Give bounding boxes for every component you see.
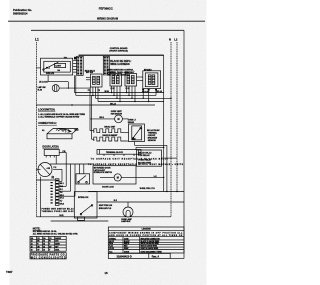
part number strip xyxy=(108,253,184,258)
table footer rows xyxy=(30,253,66,260)
svg-text:LAMP-BLK: LAMP-BLK xyxy=(121,220,131,223)
svg-text:N-32: N-32 xyxy=(132,139,136,141)
label BK-14 xyxy=(157,90,162,93)
svg-text:POWER UNIT SWITCH BK-14: POWER UNIT SWITCH BK-14 xyxy=(42,207,75,210)
lamp DS1 oven lamp xyxy=(121,202,133,223)
svg-text:TO SURFACE UNIT RECEPTACLE BLO: TO SURFACE UNIT RECEPTACLE BLOCKS BK-12 xyxy=(91,158,169,161)
svg-text:BRN LMP-PLS: BRN LMP-PLS xyxy=(99,208,112,210)
svg-text:16: 16 xyxy=(43,249,45,251)
svg-text:QUICK DISCONNECT TERM: QUICK DISCONNECT TERM xyxy=(141,251,163,253)
svg-text:V-7: V-7 xyxy=(60,201,63,203)
door switch S4 xyxy=(74,192,97,218)
svg-text:BK-1: BK-1 xyxy=(46,67,50,69)
svg-text:L1: L1 xyxy=(35,38,39,42)
svg-text:18 BL: 18 BL xyxy=(55,249,59,251)
oven light switch S1 xyxy=(41,58,73,75)
wire SW1 drops xyxy=(90,87,98,102)
wire into connector xyxy=(36,179,55,181)
svg-text:N-32: N-32 xyxy=(59,215,63,217)
svg-text:5995362014: 5995362014 xyxy=(13,12,28,16)
svg-text:TERMINAL BLOCK: TERMINAL BLOCK xyxy=(106,151,124,154)
svg-text:GY-18: GY-18 xyxy=(109,248,114,250)
header rule xyxy=(8,20,205,22)
control board edge xyxy=(79,54,164,56)
surface switch SW1 xyxy=(86,72,102,92)
footer code T387 xyxy=(6,270,13,274)
SW4 terminals xyxy=(142,89,157,94)
svg-text:SW-BK: SW-BK xyxy=(128,122,135,124)
svg-text:Rev. A: Rev. A xyxy=(152,255,160,258)
wire N run mid xyxy=(88,191,184,192)
oven door switch box xyxy=(129,124,145,142)
svg-text:T387: T387 xyxy=(6,270,13,274)
wire latch drop xyxy=(55,155,57,164)
svg-text:COMPONENT WIRING SHOWN IN OFF: COMPONENT WIRING SHOWN IN OFF POSITION A… xyxy=(109,231,183,234)
svg-text:2. ALL TERMINALS COPPER UNLESS: 2. ALL TERMINALS COPPER UNLESS NOTED xyxy=(38,116,80,119)
wire SW3 drops xyxy=(127,86,136,102)
svg-text:INTERLOCK SWITCH: INTERLOCK SWITCH xyxy=(94,172,113,174)
wire loop B xyxy=(135,142,167,192)
surface switch SW2 xyxy=(110,72,122,90)
wire broil links xyxy=(90,131,129,133)
svg-text:LOCKSWITCH:: LOCKSWITCH: xyxy=(38,109,55,112)
wire loop A xyxy=(136,147,164,150)
oven light switch S2 label xyxy=(128,120,137,124)
bake element R2 xyxy=(94,134,127,141)
svg-text:BK-1: BK-1 xyxy=(60,183,64,185)
oven relay board K1 xyxy=(137,150,162,166)
label relay output xyxy=(140,188,156,190)
control board annotation xyxy=(107,60,135,76)
heading door latch xyxy=(43,146,60,149)
svg-text:JB LOCK: JB LOCK xyxy=(39,81,48,83)
wire drop to bake element xyxy=(91,95,93,139)
wire relay to L2 xyxy=(162,157,178,158)
wire N run lower xyxy=(97,200,184,202)
svg-text:HEAT PRB LNK: HEAT PRB LNK xyxy=(99,204,113,207)
svg-text:12: 12 xyxy=(31,244,33,246)
wire connector runs xyxy=(59,181,75,196)
svg-text:4 W: 4 W xyxy=(47,167,51,170)
motor M1 oven vent xyxy=(115,115,123,123)
svg-text:10: 10 xyxy=(31,249,33,251)
bus wire 5 L1 run xyxy=(36,104,155,106)
svg-text:(FRONT SURFACE): (FRONT SURFACE) xyxy=(109,50,128,53)
wire lamp feed xyxy=(48,75,90,89)
node N xyxy=(169,38,171,217)
label between connectors xyxy=(85,70,96,73)
bus wire 1 xyxy=(75,92,164,93)
svg-text:M: M xyxy=(117,177,119,180)
wire board right drop xyxy=(163,55,165,191)
svg-text:12: 12 xyxy=(31,241,33,243)
svg-text:BK-14: BK-14 xyxy=(157,90,162,93)
svg-text:CONNECTOR A:: CONNECTOR A: xyxy=(38,122,57,125)
svg-text:WIRE HARNESS: WIRE HARNESS xyxy=(110,63,130,66)
latch module box xyxy=(93,166,136,184)
svg-text:W-30: W-30 xyxy=(105,91,109,93)
svg-text:WCI CONSOLIDATED: WCI CONSOLIDATED xyxy=(31,257,66,260)
label oven vent xyxy=(111,111,123,115)
lamp DS2 oven light bulb xyxy=(52,85,59,92)
wire SW2 drops xyxy=(112,86,121,102)
terminal strip TB1 xyxy=(97,150,141,157)
label TDL xyxy=(64,57,69,59)
bus wire 3 xyxy=(96,98,172,99)
wire vertical drops mid-left xyxy=(59,152,84,196)
svg-text:INF SW: INF SW xyxy=(86,72,93,74)
wire bottom N bus xyxy=(36,215,171,217)
label R xyxy=(52,176,55,180)
svg-text:GY-6: GY-6 xyxy=(60,198,64,200)
svg-text:OVEN LPS: OVEN LPS xyxy=(46,73,54,75)
svg-text:SYMBOL: SYMBOL xyxy=(109,238,116,240)
svg-text:10: 10 xyxy=(31,246,33,248)
legend heading left xyxy=(38,109,55,112)
bus wire 2 xyxy=(76,95,156,96)
svg-text:QUICK: QUICK xyxy=(124,251,130,253)
wire bottom stub xyxy=(51,220,109,222)
thermal breaker text xyxy=(147,129,160,142)
svg-text:316048413-D: 316048413-D xyxy=(117,255,132,258)
svg-text:16: 16 xyxy=(104,271,108,275)
wire SW4 drops xyxy=(143,91,156,102)
title WIRING DIAGRAM xyxy=(97,17,118,21)
control board label xyxy=(109,47,128,52)
relay sketch K2 xyxy=(44,149,66,157)
node L2 xyxy=(174,38,178,192)
note heading bottom xyxy=(33,227,41,230)
node L1 xyxy=(35,38,39,217)
wire drops from connector xyxy=(75,75,76,95)
label lamp code xyxy=(38,87,46,92)
connector P1 xyxy=(77,56,84,75)
wire drop to broil element xyxy=(89,93,91,131)
svg-text:OR-8: OR-8 xyxy=(60,204,64,206)
label JB block xyxy=(39,81,48,83)
surface switch SW3 xyxy=(125,72,137,90)
svg-text:BK-12: BK-12 xyxy=(109,241,114,243)
wire bake links xyxy=(92,139,129,141)
note line 2 xyxy=(38,116,80,119)
connector J1 strip xyxy=(51,179,64,206)
svg-text:DOOR LOCK: DOOR LOCK xyxy=(102,186,114,188)
caption surface units 2 xyxy=(88,163,184,166)
svg-text:DOOR LATCH:: DOOR LATCH: xyxy=(43,146,60,149)
wire gauge table xyxy=(30,236,66,251)
note body 1 xyxy=(33,230,57,233)
switch S3 xyxy=(76,174,90,184)
svg-text:BROIL UNIT: BROIL UNIT xyxy=(104,127,116,129)
label BK-8 xyxy=(100,117,104,119)
svg-text:WHITE: WHITE xyxy=(124,243,129,245)
caption surface units 1 xyxy=(91,158,169,161)
svg-text:BK-2: BK-2 xyxy=(75,130,79,132)
svg-text:A1: A1 xyxy=(42,129,44,132)
plug terminal xyxy=(74,57,76,60)
svg-text:CODE: CODE xyxy=(124,238,129,240)
bus wire 4 xyxy=(98,101,164,102)
svg-text:1. ALL LEADS ARE BLACK 14 GA.: 1. ALL LEADS ARE BLACK 14 GA. WIRE AND T… xyxy=(38,113,85,116)
svg-text:INTERLOCK: INTERLOCK xyxy=(78,197,89,199)
svg-text:P-2: P-2 xyxy=(54,167,57,169)
svg-text:SENSOR: SENSOR xyxy=(148,140,157,142)
svg-text:Publication No.: Publication No. xyxy=(13,8,32,12)
caption heat probe xyxy=(99,204,113,210)
svg-text:FEF366CC: FEF366CC xyxy=(99,6,114,10)
svg-text:M: M xyxy=(117,118,119,121)
svg-text:ALL WIRE GAUGES 18 GA. UNLESS: ALL WIRE GAUGES 18 GA. UNLESS NOTED OTW. xyxy=(33,232,79,235)
motor M3 latch xyxy=(102,174,121,189)
svg-text:R-3: R-3 xyxy=(60,189,63,191)
wire latch motor xyxy=(100,176,164,178)
motor M2 door lock xyxy=(38,163,56,177)
wire light switch to P1 xyxy=(73,61,77,73)
page number 16 xyxy=(104,271,108,275)
svg-text:N: N xyxy=(169,38,171,42)
svg-text:BAKE ELEMENT: BAKE ELEMENT xyxy=(103,134,119,137)
terminal block sketch xyxy=(42,128,78,139)
wire L1 to light switch xyxy=(36,67,40,69)
door switch terminal box xyxy=(78,217,85,221)
svg-text:R-16: R-16 xyxy=(109,246,113,248)
wire to vent motor xyxy=(90,118,129,120)
heading connector xyxy=(38,122,57,125)
note body 2 xyxy=(33,232,79,235)
model number xyxy=(99,6,114,10)
wire motor leads xyxy=(36,164,93,217)
svg-text:W-DBL P/DL LY B: W-DBL P/DL LY B xyxy=(140,188,156,190)
note line 1 xyxy=(38,113,85,116)
caption power switch xyxy=(42,207,75,213)
surface switch SW4 xyxy=(137,69,161,88)
label W-30 xyxy=(105,91,109,93)
broil element R1 xyxy=(94,127,125,133)
connector P2 xyxy=(103,56,109,75)
svg-text:WIRING DIAGRAM: WIRING DIAGRAM xyxy=(97,17,118,21)
svg-text:R: R xyxy=(52,176,55,180)
label BK-12 xyxy=(110,104,115,106)
legend table right xyxy=(108,227,184,253)
publication number xyxy=(13,8,32,16)
svg-text:LIGHT: LIGHT xyxy=(55,66,62,68)
diagram frame xyxy=(31,30,184,258)
svg-text:THERMAL FUSE LINK N-30: THERMAL FUSE LINK N-30 xyxy=(42,210,75,213)
